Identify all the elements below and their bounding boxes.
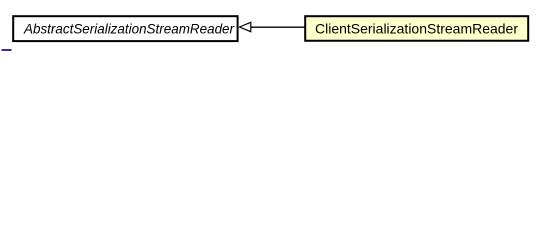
stray navy mark bottom-left [2,49,12,51]
inheritance arrowhead (hollow triangle) [240,22,251,31]
svg-text:AbstractSerializationStreamRea: AbstractSerializationStreamReader [23,21,235,37]
wire inheritance edge [251,26,305,28]
class box AbstractSerializationStreamReader [13,16,237,41]
background [0,0,537,59]
class box ClientSerializationStreamReader [305,16,528,41]
svg-text:ClientSerializationStreamReade: ClientSerializationStreamReader [315,21,518,37]
